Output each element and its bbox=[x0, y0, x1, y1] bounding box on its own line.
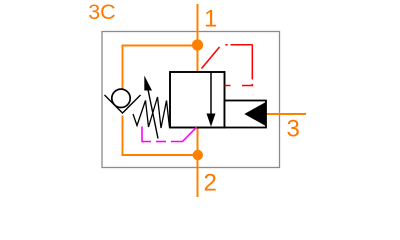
spring adjust arrow shaft bbox=[148, 90, 158, 139]
wire: left branch horizontal bbox=[122, 45, 199, 47]
svg-text:2: 2 bbox=[204, 170, 217, 197]
red pilot line: bottom short dash bbox=[225, 85, 231, 87]
pilot box bbox=[225, 101, 267, 128]
junction node at port 2 bbox=[193, 150, 203, 160]
flow arrow shaft bbox=[210, 73, 212, 115]
valve body square bbox=[170, 72, 225, 128]
component boundary box bbox=[102, 32, 280, 168]
wire: port 3 horizontal bbox=[266, 113, 306, 115]
red pilot line: top dot dash bbox=[225, 44, 227, 46]
spring bbox=[133, 97, 170, 128]
wire: left branch vertical upper bbox=[122, 45, 124, 90]
magenta drain line: corner bbox=[142, 127, 151, 142]
red pilot line: diagonal dash bbox=[202, 47, 220, 69]
check valve seat bbox=[105, 95, 141, 113]
flow arrow head bbox=[207, 114, 216, 127]
magenta drain line: dash 3 bbox=[171, 127, 197, 141]
check valve ball bbox=[112, 89, 130, 107]
red pilot line: corner dash bbox=[242, 84, 252, 86]
pilot solid triangle bbox=[244, 102, 265, 126]
red pilot line: right vertical dash bbox=[251, 44, 253, 79]
wire: port 2 vertical bbox=[197, 128, 199, 197]
svg-text:3: 3 bbox=[287, 116, 300, 143]
wire: left branch vertical lower bbox=[122, 116, 124, 156]
svg-text:3C: 3C bbox=[88, 0, 115, 24]
magenta drain line: dash 2 bbox=[156, 141, 166, 143]
red pilot line: top horizontal dash bbox=[231, 44, 252, 46]
svg-text:1: 1 bbox=[204, 6, 217, 33]
junction node at port 1 bbox=[192, 39, 203, 50]
wire: port 1 vertical bbox=[197, 4, 199, 72]
wire: bottom rail bbox=[122, 154, 198, 156]
spring adjust arrow head bbox=[144, 76, 152, 91]
